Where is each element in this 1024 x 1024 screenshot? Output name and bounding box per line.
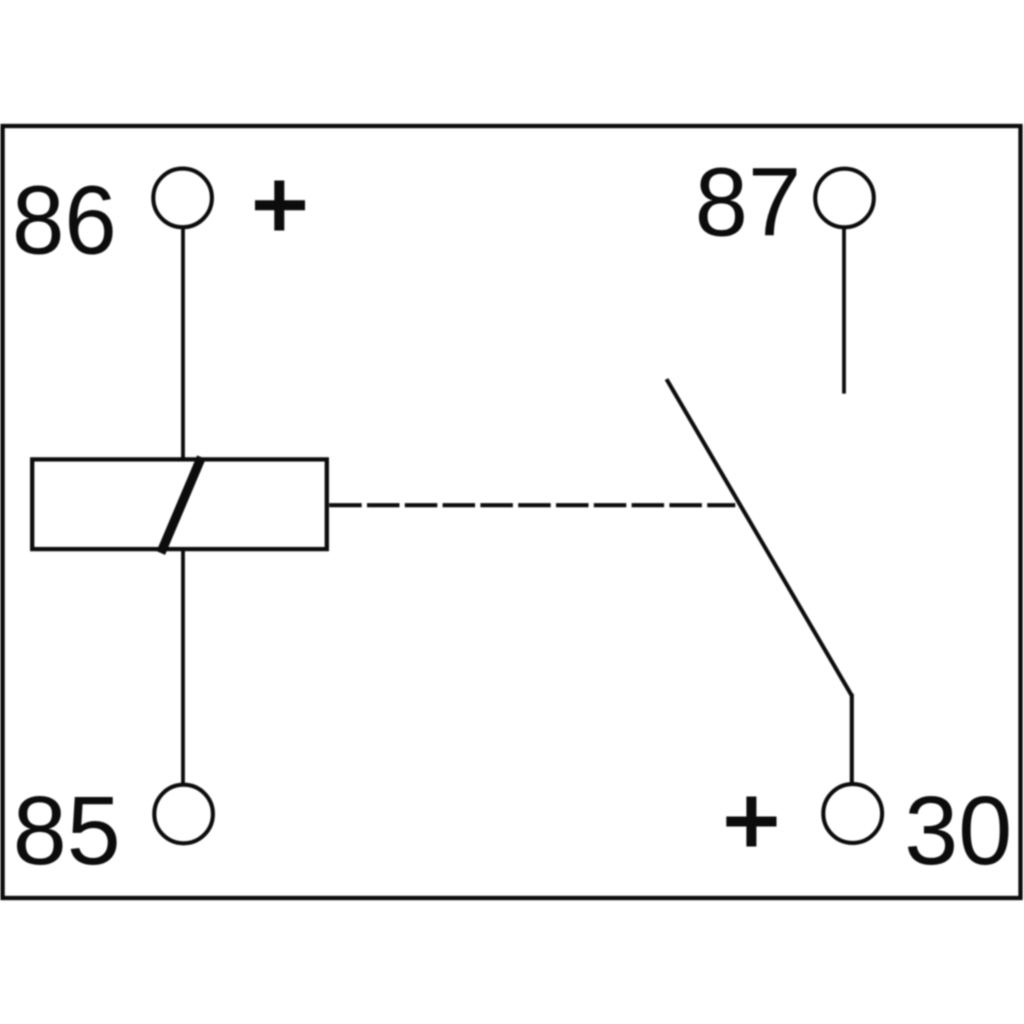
svg-text:30: 30 (904, 776, 1012, 885)
plus sign at 86 (255, 181, 305, 231)
wire 86 to coil (181, 228, 185, 459)
terminal circle 87 (815, 169, 874, 228)
coil diagonal stroke (161, 457, 202, 553)
svg-text:87: 87 (695, 147, 801, 256)
terminal circle 30 (823, 784, 882, 843)
svg-text:86: 86 (12, 165, 117, 274)
svg-text:85: 85 (13, 776, 121, 885)
terminal circle 85 (154, 785, 213, 844)
wire from 87 circle (842, 229, 846, 394)
relay coil K1 (32, 459, 327, 549)
wire coil to 85 (181, 549, 185, 785)
switch blade S1 (667, 379, 852, 696)
terminal circle 86 (153, 169, 212, 228)
wire blade to 30 (850, 694, 854, 783)
plus sign at 30 (726, 797, 776, 847)
actuation dashed link (329, 503, 735, 507)
